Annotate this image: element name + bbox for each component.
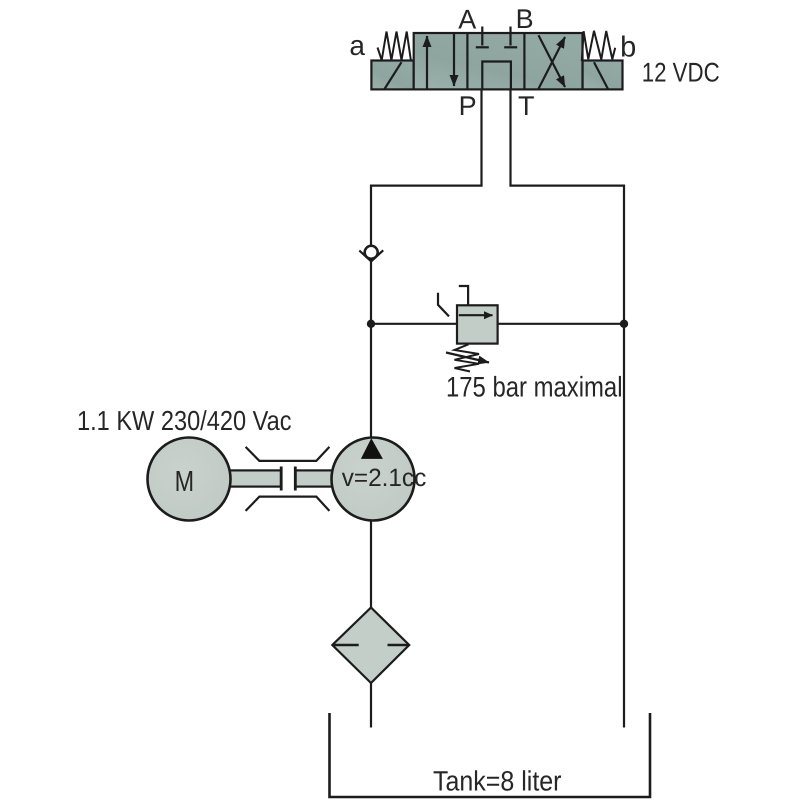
svg-text:1.1 KW 230/420 Vac: 1.1 KW 230/420 Vac — [77, 405, 292, 436]
svg-text:a: a — [349, 30, 365, 61]
svg-text:b: b — [620, 32, 636, 64]
svg-text:12 VDC: 12 VDC — [642, 58, 720, 88]
svg-text:B: B — [516, 4, 534, 34]
svg-text:A: A — [458, 4, 476, 34]
svg-text:P: P — [459, 91, 477, 121]
svg-text:v=2.1cc: v=2.1cc — [342, 464, 427, 492]
svg-text:T: T — [518, 91, 535, 121]
svg-text:M: M — [175, 466, 195, 498]
svg-text:Tank=8 liter: Tank=8 liter — [433, 766, 562, 797]
svg-text:175 bar maximal: 175 bar maximal — [446, 371, 623, 403]
